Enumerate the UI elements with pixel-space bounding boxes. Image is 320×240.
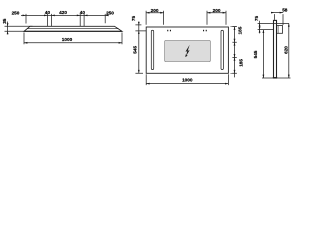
svg-text:200: 200 — [151, 8, 159, 13]
front view: left 75 dimension and 545 dimension line — [138, 22, 140, 74]
front view: top-left 200 dimension — [146, 12, 164, 14]
side view: 545 dimension line — [262, 30, 264, 78]
side view: mirror profile — [274, 20, 277, 78]
front view: right LED strip — [221, 30, 223, 69]
front view: outer rectangle — [146, 27, 228, 73]
svg-text:1000: 1000 — [62, 37, 73, 42]
side view: 75 dimension — [259, 21, 261, 34]
top view: top dim extension lines and bracket ticks — [26, 14, 105, 26]
svg-text:75: 75 — [131, 16, 136, 22]
svg-text:620: 620 — [283, 46, 288, 54]
svg-text:545: 545 — [132, 46, 137, 54]
front view: bottom 1000 dimension — [146, 83, 228, 85]
svg-text:35: 35 — [2, 18, 7, 24]
svg-text:75: 75 — [254, 16, 259, 22]
top view: top dimension line — [21, 14, 108, 16]
side view: wall bracket — [277, 26, 283, 34]
svg-text:250: 250 — [106, 11, 114, 16]
svg-text:200: 200 — [213, 8, 221, 13]
side view: 620 dimension line — [288, 23, 290, 78]
front view: left LED strip — [151, 30, 153, 69]
top view: mirror profile outline — [24, 26, 122, 31]
svg-text:1000: 1000 — [182, 77, 193, 82]
front view: lightning bolt symbol — [185, 45, 189, 57]
top view: bottom dimension line (1000) — [24, 42, 122, 44]
side view: top depth dimension (58) — [271, 12, 283, 14]
front view: wall bracket dashes — [167, 30, 207, 32]
svg-text:58: 58 — [282, 7, 288, 12]
top view: left thickness dimension (35) — [7, 22, 9, 35]
svg-text:420: 420 — [59, 10, 67, 15]
front view: center light panel — [165, 40, 211, 61]
front view: top-right 200 dimension — [207, 12, 226, 14]
top view: top dim arrows — [23, 15, 109, 17]
svg-text:545: 545 — [253, 50, 258, 58]
svg-text:40: 40 — [80, 10, 86, 15]
svg-text:185: 185 — [238, 26, 243, 34]
svg-text:185: 185 — [238, 59, 243, 67]
svg-text:40: 40 — [45, 10, 51, 15]
front view: right side dimension line (185/185) — [234, 27, 236, 78]
svg-text:250: 250 — [12, 11, 20, 16]
